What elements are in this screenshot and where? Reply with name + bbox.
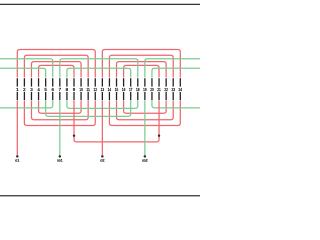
- svg-text:17: 17: [129, 87, 133, 92]
- wire wrap-around right edge to pin 20: [152, 101, 200, 108]
- pin 4 slot marks: [38, 78, 40, 86]
- svg-text:12: 12: [94, 87, 98, 92]
- wire wrap-around left edge to pin 6: [0, 59, 53, 78]
- pin 7 slot marks: [59, 78, 61, 86]
- wire coil 13-24 top link: [102, 50, 180, 78]
- terminal oo1: [59, 155, 62, 158]
- svg-text:10: 10: [79, 87, 83, 92]
- pin 15 slot marks: [116, 78, 118, 86]
- wire jumper 16-22 bottom link: [124, 101, 167, 113]
- pin 11 slot marks: [87, 78, 89, 86]
- wire wrap-around left edge to pin 6: [0, 101, 53, 108]
- wire coil 7-18 top link: [60, 59, 138, 78]
- pin 24 slot marks: [179, 78, 181, 86]
- wire jumper 8-18 bottom link: [67, 101, 138, 109]
- pin 16 slot marks: [123, 78, 125, 86]
- svg-text:o1: o1: [15, 158, 19, 162]
- pin 3 slot marks: [30, 78, 32, 86]
- wire lead oo2 from pin 19: [144, 101, 146, 155]
- pin 17 slot marks: [130, 78, 132, 86]
- svg-text:7: 7: [59, 87, 62, 92]
- terminal oo2: [144, 155, 147, 158]
- wire coil 2-11 top link: [24, 55, 88, 77]
- bottom rule: [0, 195, 200, 197]
- wire lead oo1 from pin 7: [59, 101, 61, 155]
- pin 12 slot marks: [94, 78, 96, 86]
- pin 18 slot marks: [137, 78, 139, 86]
- pin 2 slot marks: [23, 78, 25, 86]
- wire lead o2 from pin 13: [101, 101, 103, 155]
- svg-text:oo2: oo2: [142, 158, 148, 162]
- svg-text:18: 18: [136, 87, 140, 92]
- svg-text:24: 24: [179, 87, 183, 92]
- pin 21 slot marks: [158, 78, 160, 86]
- svg-text:11: 11: [86, 87, 90, 92]
- junction dot on 9-21 link left: [73, 135, 75, 137]
- wire jumper 2-12 bottom link: [24, 101, 95, 126]
- wire wrap-around right edge to pin 20: [152, 68, 200, 77]
- svg-text:21: 21: [157, 87, 161, 92]
- svg-text:19: 19: [143, 87, 147, 92]
- wire jumper 5-17 bottom link: [46, 101, 131, 117]
- pin 22 slot marks: [165, 78, 167, 86]
- wire coil 16-21 top link: [124, 65, 159, 77]
- pin 1 slot marks: [16, 78, 18, 86]
- wire coil 1-12 top link: [17, 50, 95, 78]
- svg-text:8: 8: [66, 87, 69, 92]
- svg-text:20: 20: [150, 87, 154, 92]
- wire jumper 15-23 bottom link: [117, 101, 174, 120]
- pin 9 slot marks: [73, 78, 75, 86]
- svg-text:14: 14: [108, 87, 112, 92]
- wire jumper 9-21 bottom link: [74, 101, 159, 142]
- wire coil 3-10 top link: [31, 62, 81, 78]
- wire lead o1 from pin 1: [16, 101, 18, 155]
- wire coil 8-17 top link: [67, 68, 131, 77]
- wire wrap-around left edge to pin 5: [0, 68, 46, 77]
- svg-text:22: 22: [164, 87, 168, 92]
- svg-text:2: 2: [23, 87, 26, 92]
- wire coil 14-23 top link: [109, 55, 173, 77]
- svg-text:6: 6: [52, 87, 55, 92]
- svg-text:1: 1: [16, 87, 19, 92]
- svg-text:oo1: oo1: [57, 158, 63, 162]
- svg-text:o2: o2: [100, 158, 104, 162]
- pin 13 slot marks: [101, 78, 103, 86]
- wire jumper 3-11 bottom link: [31, 101, 88, 120]
- svg-text:16: 16: [122, 87, 126, 92]
- svg-text:3: 3: [30, 87, 33, 92]
- svg-text:15: 15: [115, 87, 119, 92]
- svg-text:4: 4: [37, 87, 40, 92]
- top rule: [0, 3, 200, 5]
- pin 14 slot marks: [108, 78, 110, 86]
- pin 19 slot marks: [144, 78, 146, 86]
- svg-text:9: 9: [73, 87, 76, 92]
- pin 5 slot marks: [45, 78, 47, 86]
- wire jumper 4-10 bottom link: [39, 101, 82, 113]
- terminal o1: [16, 155, 19, 158]
- wire coil 4-9 top link: [39, 65, 74, 77]
- wire jumper 14-24 bottom link: [109, 101, 180, 126]
- wire coil 15-22 top link: [117, 62, 167, 78]
- wire wrap-around right edge to pin 19: [145, 59, 200, 78]
- pin 6 slot marks: [52, 78, 54, 86]
- pin 8 slot marks: [66, 78, 68, 86]
- junction dot on 9-21 link right: [158, 135, 160, 137]
- svg-text:23: 23: [171, 87, 175, 92]
- terminal o2: [101, 155, 104, 158]
- svg-text:5: 5: [44, 87, 47, 92]
- pin 20 slot marks: [151, 78, 153, 86]
- pin 10 slot marks: [80, 78, 82, 86]
- pin 23 slot marks: [172, 78, 174, 86]
- svg-text:13: 13: [101, 87, 105, 92]
